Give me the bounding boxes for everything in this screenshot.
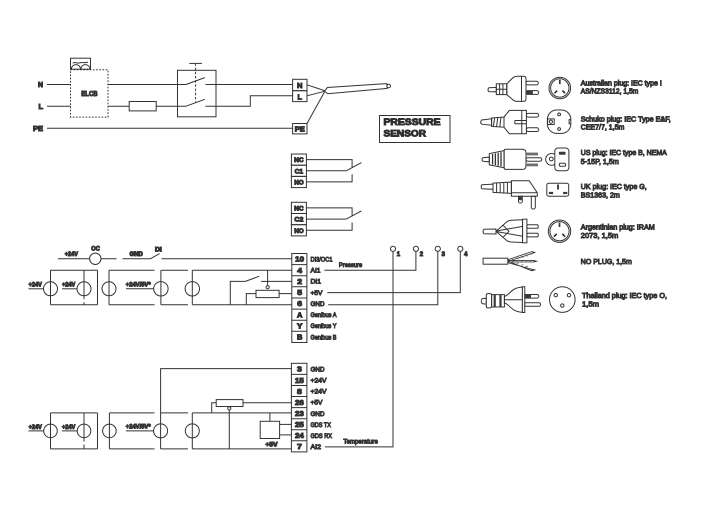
svg-text:GDS TX: GDS TX	[311, 422, 332, 429]
svg-text:10: 10	[295, 257, 304, 264]
svg-text:+24V: +24V	[311, 389, 327, 396]
switch S1 pole N blade	[186, 78, 205, 85]
svg-text:PE: PE	[295, 125, 305, 134]
svg-text:C1: C1	[295, 168, 304, 175]
bus GND lower	[51, 412, 292, 414]
wire pot lower to GND bus	[212, 403, 217, 413]
svg-text:GND: GND	[311, 411, 325, 418]
svg-text:25: 25	[295, 422, 304, 429]
wire L to terminal L	[206, 96, 293, 106]
wire N to terminal N	[206, 84, 293, 86]
gland vertical 5	[191, 270, 193, 305]
uk plug side view	[481, 181, 537, 209]
switch DI1 wire from GND bus	[230, 281, 245, 304]
svg-text:L: L	[39, 104, 44, 111]
svg-text:OC: OC	[91, 246, 100, 252]
svg-text:Genibus Y: Genibus Y	[311, 323, 337, 330]
argentinian plug front view	[548, 220, 570, 242]
potentiometer upper wiper wire	[267, 270, 269, 285]
wire L to fuse	[108, 105, 129, 107]
thailand plug side view	[481, 287, 540, 313]
svg-text:3: 3	[297, 367, 302, 374]
svg-text:+5V: +5V	[311, 400, 323, 407]
svg-text:+5V: +5V	[311, 290, 323, 297]
wire L input	[47, 105, 71, 107]
cable box1 right edge	[97, 270, 99, 305]
wire +24V g1	[29, 288, 44, 290]
svg-text:2: 2	[420, 252, 424, 258]
sensor pin 4	[458, 246, 463, 251]
svg-text:+24V: +24V	[29, 425, 42, 431]
wire NO2	[306, 223, 352, 231]
svg-text:NO: NO	[294, 228, 304, 235]
terminal PE box	[293, 124, 307, 134]
svg-text:NC: NC	[294, 157, 304, 164]
svg-text:SENSOR: SENSOR	[384, 129, 427, 140]
gland lower circle 1	[44, 424, 58, 438]
svg-text:N: N	[297, 81, 303, 90]
svg-text:1,5m: 1,5m	[582, 299, 599, 308]
sensor pin 3	[435, 246, 440, 251]
relay 2 blade	[346, 211, 361, 219]
terminal block upper row lines	[292, 265, 307, 332]
sensor pin 2	[413, 246, 418, 251]
svg-text:+24V/5V*: +24V/5V*	[126, 425, 151, 431]
svg-text:+24V: +24V	[65, 252, 78, 258]
gland lower vertical 5	[191, 413, 193, 449]
switch S1 pole L blade	[186, 99, 205, 106]
no-plug wire bottom	[508, 261, 535, 271]
svg-text:AS/NZS3112, 1,5m: AS/NZS3112, 1,5m	[581, 87, 639, 96]
svg-text:DI: DI	[155, 247, 162, 253]
wire pot lower to terminal 26	[243, 402, 291, 404]
wire N to cable	[307, 85, 325, 91]
relay contact 2 terminal C2	[291, 214, 306, 225]
svg-text:B: B	[297, 335, 302, 342]
gland lower vertical 2	[83, 413, 85, 449]
svg-text:+5V: +5V	[266, 443, 278, 449]
svg-text:6: 6	[297, 301, 302, 308]
svg-text:CEE7/7, 1,5m: CEE7/7, 1,5m	[581, 123, 625, 132]
wire pin2 to AI1	[324, 252, 416, 271]
svg-text:GND: GND	[130, 252, 144, 258]
svg-text:Y: Y	[297, 323, 303, 330]
gland circle 1	[44, 282, 58, 296]
wire C1	[306, 170, 346, 172]
wire terminal 3 GND	[161, 369, 292, 413]
svg-text:AI1: AI1	[311, 268, 321, 275]
svg-text:A: A	[297, 312, 302, 319]
gland lower circle 2	[77, 424, 91, 438]
switch DI1 blade	[245, 276, 259, 281]
gland circle 3	[102, 282, 116, 296]
terminal N box	[293, 79, 307, 90]
svg-text:Temperature: Temperature	[343, 439, 378, 446]
svg-text:ELCB: ELCB	[81, 91, 97, 98]
svg-text:+24V: +24V	[62, 425, 75, 431]
relay 1 blade	[346, 163, 361, 171]
switch DI blade	[150, 254, 159, 259]
bus GND upper	[51, 304, 292, 306]
wire PE	[47, 127, 293, 129]
wire +24V to OC	[58, 258, 90, 260]
svg-text:24: 24	[295, 433, 304, 440]
wire pin4 to +5V	[327, 252, 460, 293]
wire NC1	[306, 160, 352, 168]
gland lower circle 3	[103, 424, 117, 438]
svg-text:5-15P, 1,5m: 5-15P, 1,5m	[581, 157, 619, 166]
thailand plug front view	[550, 287, 576, 313]
wire fuse to switch	[156, 105, 186, 107]
svg-text:3: 3	[442, 252, 446, 258]
wire +24V/5V* lower g4	[126, 430, 154, 432]
potentiometer lower wiper wire	[228, 410, 230, 449]
svg-text:2: 2	[297, 279, 302, 286]
wire GND to DI switch	[123, 258, 151, 260]
wire N to switch	[108, 84, 186, 86]
no-plug wire middle	[508, 260, 537, 262]
terminal block lower outline	[291, 363, 307, 452]
gland vertical 1	[50, 270, 52, 305]
pressure sensor label box	[380, 116, 451, 143]
australian plug front view	[549, 77, 571, 99]
switch S1 box	[178, 70, 217, 117]
schuko plug front view	[547, 110, 570, 133]
wire level box to terminal 25	[280, 423, 292, 425]
svg-text:4: 4	[297, 268, 302, 275]
gland lower vertical 3	[108, 413, 110, 449]
wire level box to terminal 24	[280, 434, 292, 436]
wire +24V lower g2	[62, 430, 77, 432]
level box +5V	[260, 421, 279, 438]
svg-text:1: 1	[397, 252, 401, 258]
wire level box to GND bus	[269, 413, 271, 421]
potentiometer upper wiper contact	[266, 286, 269, 289]
svg-text:+24V: +24V	[311, 378, 327, 385]
potentiometer upper body	[256, 290, 279, 297]
gland vertical 3	[108, 270, 110, 305]
australian plug side view	[488, 76, 539, 102]
svg-text:GDS RX: GDS RX	[311, 433, 333, 440]
relay contact 1 terminal NO	[291, 176, 306, 187]
svg-text:AI2: AI2	[311, 444, 322, 451]
svg-text:PE: PE	[33, 126, 43, 133]
no-plug cable sheath	[483, 258, 508, 264]
svg-text:Genibus B: Genibus B	[311, 334, 337, 341]
svg-text:NO: NO	[294, 180, 304, 187]
switch S1 actuator	[189, 62, 202, 64]
svg-text:US plug: IEC type B, NEMA: US plug: IEC type B, NEMA	[581, 148, 667, 157]
svg-text:8: 8	[297, 389, 302, 396]
wire pin3 to GND	[328, 252, 438, 305]
wire DI1 to terminal 2	[261, 280, 292, 282]
svg-text:7: 7	[297, 444, 302, 451]
svg-text:NO PLUG, 1,5m: NO PLUG, 1,5m	[581, 257, 632, 266]
svg-text:DI1: DI1	[311, 279, 322, 286]
relay contact 1 terminal C1	[291, 165, 306, 176]
wire N input	[47, 84, 71, 86]
gland vertical 4	[160, 270, 162, 305]
svg-text:+24V/5V*: +24V/5V*	[126, 283, 151, 289]
no-plug wire top	[508, 252, 535, 262]
gland lower vertical 1	[50, 413, 52, 449]
svg-text:23: 23	[295, 411, 304, 418]
svg-text:L: L	[298, 92, 303, 101]
wire C2	[306, 218, 346, 220]
us plug side view	[482, 149, 542, 169]
svg-text:Pressure: Pressure	[339, 262, 362, 269]
open collector OC circle	[90, 253, 101, 264]
svg-text:+24V: +24V	[62, 283, 75, 289]
svg-text:5: 5	[297, 290, 302, 297]
relay contact 2 terminal NO	[291, 225, 306, 236]
breaker ELCB	[71, 70, 109, 117]
wire +24V/5V* g4	[126, 288, 154, 290]
wire pot to terminal 5	[279, 293, 292, 295]
potentiometer lower wiper contact	[228, 407, 231, 410]
wire pot to GND bus	[246, 294, 256, 305]
fuse F1	[129, 102, 156, 111]
svg-text:GND: GND	[311, 367, 325, 374]
terminal L box	[293, 91, 307, 102]
svg-text:DI3/OC1: DI3/OC1	[311, 257, 333, 264]
wire NO1	[306, 174, 352, 182]
relay contact 1 terminal NC	[291, 154, 306, 165]
svg-text:26: 26	[295, 400, 304, 407]
svg-text:C2: C2	[294, 217, 303, 224]
relay contact 2 terminal NC	[291, 202, 306, 213]
bus AI1 upper	[51, 269, 292, 271]
wire NC2	[306, 208, 352, 216]
wire L to cable	[307, 91, 325, 96]
potentiometer lower body	[216, 400, 243, 407]
sensor cable	[325, 84, 388, 94]
gland circle 4	[154, 282, 168, 296]
svg-text:Genibus A: Genibus A	[311, 312, 337, 319]
sensor pin 1	[390, 246, 395, 251]
RCD test symbol above ELCB	[71, 58, 91, 69]
svg-text:PRESSURE: PRESSURE	[384, 117, 441, 128]
wire OC dangling	[101, 258, 117, 260]
cable box lower right edge	[97, 413, 99, 449]
uk plug front view	[547, 183, 569, 196]
wire +24V g2	[62, 288, 77, 290]
svg-text:GND: GND	[311, 301, 325, 308]
schuko plug side view	[481, 110, 539, 133]
terminal block upper outline	[292, 254, 307, 343]
gland lower circle 4	[154, 424, 168, 438]
svg-text:15: 15	[295, 378, 304, 385]
svg-text:2073, 1,5m: 2073, 1,5m	[581, 231, 619, 240]
svg-text:NC: NC	[294, 205, 304, 212]
gland circle 2	[77, 282, 91, 296]
gland lower vertical 4	[160, 413, 162, 449]
svg-text:BS1363, 2m: BS1363, 2m	[581, 190, 620, 199]
gland circle 5	[185, 282, 199, 296]
us plug front view	[546, 148, 569, 171]
gland lower circle 5	[185, 424, 199, 438]
terminal block lower row lines	[291, 374, 307, 440]
wire pin1 to AI2	[325, 252, 393, 447]
wire DI to terminal 10	[162, 258, 292, 260]
gland vertical 2	[83, 270, 85, 305]
svg-text:4: 4	[464, 252, 468, 258]
argentinian plug side view	[483, 219, 538, 243]
svg-text:N: N	[38, 82, 43, 89]
wire +24V lower g1	[29, 430, 44, 432]
wire PE to cable	[307, 92, 325, 124]
bus AI2 lower	[51, 448, 292, 450]
svg-text:+24V: +24V	[29, 283, 42, 289]
